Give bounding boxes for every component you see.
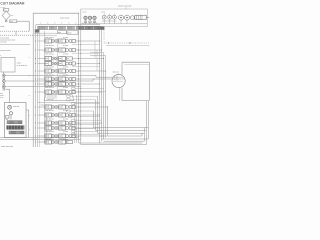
svg-text:xxx: xxx xyxy=(46,115,49,117)
svg-text:xx xx xxxx xxx: xx xx xxxx xxx xyxy=(17,65,27,67)
svg-text:x xxxx xxxx: x xxxx xxxx xyxy=(40,104,48,106)
svg-text:xxx: xxx xyxy=(59,84,62,86)
svg-text:xxxx xxxx xx: xxxx xxxx xx xyxy=(45,75,54,77)
svg-text:xxx: xxx xyxy=(46,41,49,43)
svg-text:xxx: xxx xyxy=(0,93,3,95)
svg-text:xxxx xxxx xxxx: xxxx xxxx xxxx xyxy=(47,96,57,98)
svg-text:xxxx xxx: xxxx xxx xyxy=(113,71,119,73)
svg-text:xxx: xxx xyxy=(46,136,49,138)
svg-text:xxx: xxx xyxy=(59,79,62,81)
svg-text:xxx: xxx xyxy=(11,15,14,17)
svg-text:xxx: xxx xyxy=(46,50,49,52)
svg-text:xxx: xxx xyxy=(46,128,49,130)
svg-text:xxx: xxx xyxy=(46,92,49,94)
svg-text:xx xxxx: xx xxxx xyxy=(63,45,68,47)
svg-text:xxxx xxxx xx: xxxx xxxx xx xyxy=(45,54,54,56)
svg-text:xx xxxx: xx xxxx xyxy=(63,37,68,39)
svg-text:xxx: xxx xyxy=(59,142,62,144)
svg-text:xx xxxx xxxx xx: xx xxxx xxxx xx xyxy=(46,97,57,99)
svg-text:xx: xx xyxy=(67,58,69,60)
svg-text:xx xxxx: xx xxxx xyxy=(63,110,68,112)
svg-text:xxxx xxxx xx: xxxx xxxx xx xyxy=(45,87,54,89)
svg-text:xx xx xxx: xx xx xxx xyxy=(13,106,19,108)
svg-text:CUIT DIAGRAM: CUIT DIAGRAM xyxy=(0,2,24,6)
svg-text:xxxx xx xxxx: xxxx xx xxxx xyxy=(0,37,9,39)
svg-text:xxx: xxx xyxy=(59,50,62,52)
svg-text:xxxx xxxx: xxxx xxxx xyxy=(47,99,54,101)
svg-text:xxxxx xxx xxxxx xxxx: xxxxx xxx xxxxx xxxx xyxy=(0,39,15,41)
svg-text:xxxx xxxx xx: xxxx xxxx xx xyxy=(45,67,54,69)
svg-text:xx: xx xyxy=(4,10,6,12)
svg-text:xxx: xxx xyxy=(46,58,49,60)
svg-text:xx xxxx: xx xxxx xyxy=(63,119,68,121)
svg-text:xxxx xxxx xx: xxxx xxxx xx xyxy=(45,37,54,39)
svg-text:xxxxx: xxxxx xyxy=(68,32,72,34)
svg-text:xxx: xxx xyxy=(46,71,49,73)
svg-text:xxxxx: xxxxx xyxy=(17,63,21,65)
svg-text:xxx: xxx xyxy=(46,142,49,144)
svg-text:xxx: xxx xyxy=(59,63,62,65)
svg-text:xx: xx xyxy=(67,142,69,144)
svg-text:xxx: xxx xyxy=(59,123,62,125)
svg-text:xxx: xxx xyxy=(59,136,62,138)
svg-text:xxx: xxx xyxy=(46,84,49,86)
svg-text:xxx: xxx xyxy=(59,128,62,130)
svg-text:xxx: xxx xyxy=(46,123,49,125)
svg-text:xx xxxx: xx xxxx xyxy=(63,54,68,56)
svg-text:xxx: xxx xyxy=(46,79,49,81)
svg-text:xxxx xxxx xx: xxxx xxxx xx xyxy=(45,110,54,112)
svg-text:xxxxx xx xxxx xxxx: xxxxx xx xxxx xxxx xyxy=(118,5,131,7)
svg-text:xxx: xxx xyxy=(59,41,62,43)
svg-text:xxxxx: xxxxx xyxy=(0,26,4,28)
svg-text:xxxx: xxxx xyxy=(58,32,61,34)
svg-text:xxx: xxx xyxy=(59,58,62,60)
svg-text:x xx: x xx xyxy=(0,97,3,99)
svg-text:xx xxxx: xx xxxx xyxy=(63,131,68,133)
svg-text:xxx: xxx xyxy=(59,71,62,73)
svg-text:xxxx: xxxx xyxy=(0,95,3,97)
svg-text:xxx: xxx xyxy=(59,92,62,94)
svg-text:xx xxxx: xx xxxx xyxy=(63,87,68,89)
svg-text:xx xxxxx: xx xxxxx xyxy=(0,41,6,43)
svg-text:xxxxxx xxxxx: xxxxxx xxxxx xyxy=(60,18,69,20)
svg-text:xxxxx xxxx xxxx: xxxxx xxxx xxxx xyxy=(1,146,13,148)
svg-text:xxx: xxx xyxy=(46,107,49,109)
svg-text:xxx xx: xxx xx xyxy=(82,12,86,14)
svg-text:xx xxxx: xx xxxx xyxy=(63,75,68,77)
svg-text:xx xxxx: xx xxxx xyxy=(63,139,68,141)
svg-text:xxxx: xxxx xyxy=(10,21,13,23)
svg-text:xx xxxx: xx xxxx xyxy=(63,67,68,69)
svg-text:xxxxxx xxxxx: xxxxxx xxxxx xyxy=(0,50,10,52)
svg-text:xxx: xxx xyxy=(46,63,49,65)
svg-text:xxxx xxxx xx: xxxx xxxx xx xyxy=(45,45,54,47)
svg-text:xx xxx: xx xxx xyxy=(101,12,105,14)
svg-text:xxx: xxx xyxy=(59,107,62,109)
svg-text:xxx: xxx xyxy=(59,115,62,117)
